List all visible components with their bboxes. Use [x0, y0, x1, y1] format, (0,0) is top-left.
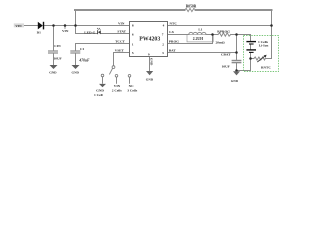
svg-text:RPROG: RPROG — [217, 29, 230, 33]
svg-text:RNTC: RNTC — [261, 65, 271, 69]
svg-text:D1: D1 — [37, 31, 42, 35]
svg-text:R050R: R050R — [186, 4, 197, 8]
svg-text:GND: GND — [231, 79, 239, 83]
svg-text:TCCT: TCCT — [115, 39, 125, 43]
svg-text:10UF: 10UF — [222, 64, 230, 68]
svg-text:NC: NC — [129, 84, 135, 88]
svg-text:20mΩ: 20mΩ — [216, 40, 225, 44]
svg-text:PW4203: PW4203 — [139, 37, 160, 43]
svg-text:VIN: VIN — [118, 22, 125, 26]
svg-text:5: 5 — [132, 51, 134, 55]
svg-text:CBAT: CBAT — [221, 53, 231, 57]
svg-text:4: 4 — [163, 24, 165, 28]
svg-text:C1: C1 — [80, 47, 85, 51]
svg-text:10UF: 10UF — [54, 56, 62, 60]
svg-text:6: 6 — [132, 33, 134, 37]
svg-text:7: 7 — [162, 33, 164, 37]
svg-text:GND: GND — [150, 58, 154, 66]
svg-text:VIN: VIN — [15, 24, 22, 28]
svg-text:2.2UH: 2.2UH — [193, 37, 203, 41]
svg-text:3 Cells: 3 Cells — [127, 89, 138, 93]
svg-text:GND: GND — [146, 78, 154, 82]
svg-text:2: 2 — [162, 42, 164, 46]
svg-text:L1: L1 — [198, 28, 202, 32]
svg-text:VSET: VSET — [115, 48, 125, 52]
svg-text:LED-G: LED-G — [84, 31, 95, 35]
svg-text:470uF: 470uF — [78, 59, 90, 63]
svg-text:9: 9 — [148, 53, 150, 57]
svg-text:1 Cell: 1 Cell — [94, 93, 103, 97]
svg-text:GND: GND — [49, 70, 57, 74]
svg-text:VIN: VIN — [62, 29, 69, 33]
svg-text:NTC: NTC — [170, 22, 178, 26]
svg-text:2 Cells: 2 Cells — [112, 89, 123, 93]
svg-text:3: 3 — [162, 51, 164, 55]
svg-text:BAT: BAT — [169, 49, 177, 53]
svg-text:STAT: STAT — [117, 29, 126, 33]
svg-text:PROG: PROG — [169, 40, 179, 44]
svg-text:LX: LX — [169, 30, 174, 34]
svg-text:GND: GND — [72, 70, 80, 74]
svg-text:Li-Ion: Li-Ion — [259, 44, 269, 48]
svg-text:VIN: VIN — [114, 84, 121, 88]
svg-text:1: 1 — [132, 43, 134, 47]
svg-text:8: 8 — [132, 24, 134, 28]
svg-text:CIN: CIN — [54, 44, 61, 48]
